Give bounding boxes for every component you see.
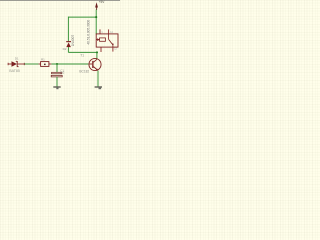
transistor T1 [89,58,101,70]
node collector junction [96,51,98,53]
svg-text:BAT85: BAT85 [9,69,20,73]
pin K1 switch bottom [112,47,114,52]
svg-text:+5V: +5V [99,0,106,4]
svg-text:2n2: 2n2 [60,71,65,75]
svg-text:R1: R1 [41,57,45,61]
wire R1 to base [51,63,88,65]
diode D2 [66,41,71,49]
pin K1 coil top [99,29,101,34]
wire +5V rail horizontal [68,16,96,18]
wire C1 to ground [56,77,58,87]
pin T1 base [88,63,92,65]
svg-text:12: 12 [114,49,117,51]
coil [96,39,97,41]
switch [108,34,110,40]
pin K1 coil bottom [100,47,102,52]
resistor R1 [39,62,52,67]
svg-text:BC182: BC182 [79,70,89,74]
capacitor C1 [51,72,62,77]
ground (C1) [53,86,60,89]
svg-text:T1: T1 [80,54,84,58]
svg-text:40.51.6.005.3000: 40.51.6.005.3000 [86,20,90,45]
ground (emitter) [95,86,102,89]
relay K1 [96,34,118,47]
wire emitter to ground [97,71,99,87]
svg-text:1N4007: 1N4007 [71,35,75,47]
svg-text:D1: D1 [15,57,19,61]
wire D2 to collector node [68,51,97,53]
node rail junction [95,16,97,18]
wire D1 to R1 [25,63,39,65]
wire collector [96,52,98,59]
supply +5V arrow [95,2,98,10]
wire supply vertical [95,10,97,35]
wire rail to D2 [67,17,69,42]
diode D1 [8,61,25,67]
window top edge [0,0,120,1]
pin K1 switch top [108,29,110,34]
node base junction [56,63,58,65]
svg-text:D2: D2 [63,47,67,51]
wire base to C1 [56,64,58,72]
